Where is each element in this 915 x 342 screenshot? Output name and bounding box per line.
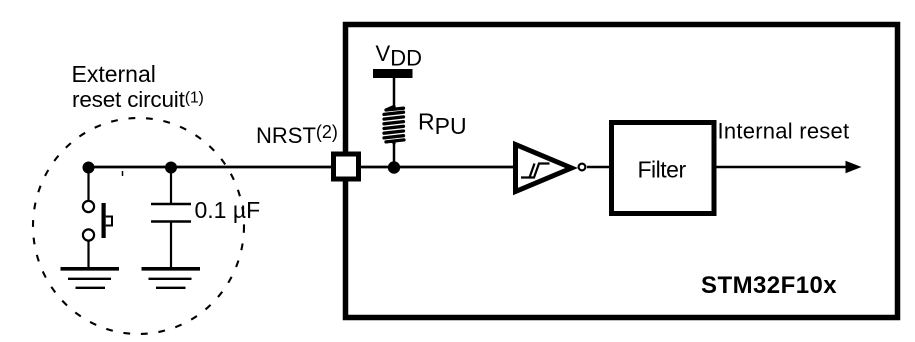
VDD supply bar (373, 69, 413, 108)
label STM32F10x (701, 272, 837, 299)
svg-text:reset circuit(1): reset circuit(1) (72, 87, 204, 112)
STM32F10x box (346, 25, 898, 318)
capacitor C1 0.1uF (151, 167, 191, 268)
svg-text:NRST(2): NRST(2) (256, 122, 338, 148)
svg-text:VDD: VDD (376, 41, 422, 71)
label 0.1 uF (195, 197, 261, 223)
label External reset circuit(1) (72, 61, 204, 112)
junction node: NRST / RPU (388, 161, 400, 173)
label VDD (376, 41, 422, 71)
wire stub artifact (122, 171, 124, 176)
filter box (612, 123, 715, 214)
label NRST(2) (256, 122, 338, 148)
svg-text:RPU: RPU (418, 109, 467, 140)
ground: push button (61, 269, 120, 288)
svg-text:Filter: Filter (638, 157, 687, 183)
junction node: capacitor (165, 162, 177, 174)
dashed circle: external reset circuit boundary (33, 118, 244, 334)
wire: schmitt output to filter (587, 166, 611, 169)
resistor RPU (coil) (384, 107, 404, 168)
push button B1 (83, 167, 112, 268)
svg-text:Internal reset: Internal reset (718, 119, 850, 144)
svg-text:External: External (72, 61, 156, 87)
ground: capacitor (142, 269, 201, 288)
svg-text:0.1 µF: 0.1 µF (195, 197, 261, 223)
label Filter (638, 157, 687, 183)
label RPU (418, 109, 467, 140)
label Internal reset (718, 119, 850, 144)
schmitt trigger inverter (516, 145, 586, 192)
wire: NRST net (external node to schmitt input) (88, 166, 516, 169)
NRST pin square (334, 154, 359, 179)
junction node: push button (83, 162, 95, 174)
wire: internal reset with arrow (716, 161, 862, 173)
svg-text:STM32F10x: STM32F10x (701, 272, 837, 299)
